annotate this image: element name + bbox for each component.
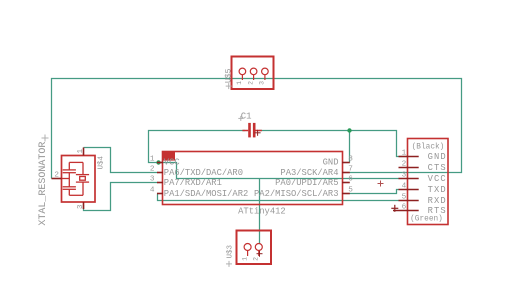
- svg-text:U$5: U$5: [225, 68, 234, 83]
- svg-text:7: 7: [348, 165, 353, 173]
- svg-text:PA7/RXD/AR1: PA7/RXD/AR1: [164, 178, 222, 188]
- svg-text:6: 6: [402, 203, 407, 211]
- capacitor C1: [242, 123, 262, 137]
- FTDI RTS pin origin cross: [391, 205, 398, 212]
- wire IC pin4 to connector RXD pin5: [158, 194, 400, 201]
- wire resonator pin3 to IC pin3: [84, 183, 158, 211]
- wire net GND branch to IC pin8: [349, 131, 351, 163]
- svg-text:1: 1: [236, 81, 243, 85]
- C1 text anchor cross: [238, 116, 243, 121]
- ATtiny412 pin names: [164, 158, 339, 199]
- resonator pin numbers: [54, 149, 84, 210]
- svg-text:3: 3: [402, 171, 407, 179]
- svg-text:C1: C1: [241, 111, 252, 121]
- svg-text:2: 2: [253, 257, 260, 261]
- svg-text:4: 4: [402, 182, 407, 190]
- wire IC pin5 to connector TXD pin4: [350, 190, 400, 194]
- svg-text:3: 3: [77, 204, 85, 209]
- svg-text:PA6/TXD/DAC/AR0: PA6/TXD/DAC/AR0: [164, 168, 243, 178]
- ATtiny412 left pin stubs: [157, 163, 163, 194]
- svg-text:CTS: CTS: [428, 163, 447, 173]
- svg-text:PA2/MISO/SCL/AR3: PA2/MISO/SCL/AR3: [254, 189, 338, 199]
- wire net GND: C1 right to connector GND pin1: [259, 131, 407, 157]
- svg-text:1: 1: [77, 149, 85, 154]
- U$5 pin numbers (rotated): [236, 81, 266, 85]
- svg-text:PA3/SCK/AR4: PA3/SCK/AR4: [280, 168, 338, 178]
- svg-text:4: 4: [150, 186, 155, 194]
- ic U1 ATtiny412 body: [163, 152, 343, 205]
- wire net VCC branch to U$3: [259, 179, 261, 244]
- svg-text:3: 3: [150, 175, 155, 183]
- svg-text:5: 5: [402, 193, 407, 201]
- svg-text:2: 2: [150, 165, 155, 173]
- svg-text:(Black): (Black): [412, 143, 445, 151]
- FTDI header pin stubs: [393, 157, 419, 211]
- svg-text:1: 1: [402, 149, 407, 157]
- junction at GND net below C1: [347, 128, 351, 132]
- svg-text:2: 2: [402, 160, 407, 168]
- resonator origin cross: [42, 135, 49, 142]
- U$5 pin circles: [239, 68, 268, 80]
- svg-text:3: 3: [259, 81, 266, 85]
- resonator U$4 body: [62, 156, 96, 203]
- connector U$3 body: [237, 231, 272, 265]
- U$5 origin cross: [226, 83, 232, 89]
- svg-text:GND: GND: [323, 158, 339, 168]
- U$3 pin circles: [244, 244, 262, 257]
- svg-text:XTAL_RESONATOR: XTAL_RESONATOR: [38, 142, 49, 226]
- wire net VCC: C1 left to IC pin1, then to connector VCC pin3: [149, 131, 400, 179]
- wire resonator pin1 to IC pin2: [84, 148, 158, 173]
- svg-text:GND: GND: [428, 152, 447, 162]
- svg-text:U$4: U$4: [98, 155, 106, 169]
- resonator pin stubs: [52, 148, 84, 210]
- U$3 pin numbers (rotated): [241, 257, 259, 261]
- U$3 pin2 origin cross: [257, 251, 263, 257]
- C1 origin cross: [255, 130, 261, 136]
- svg-text:VCC: VCC: [428, 174, 447, 184]
- svg-text:1: 1: [241, 257, 248, 261]
- FTDI part origin cross: [378, 181, 384, 187]
- svg-text:6: 6: [348, 175, 353, 183]
- connector U$2 FTDI header body: [408, 139, 449, 225]
- svg-text:PA1/SDA/MOSI/AR2: PA1/SDA/MOSI/AR2: [164, 189, 248, 199]
- junction at IC pin1 VCC: [156, 160, 160, 164]
- svg-text:ATtiny412: ATtiny412: [238, 206, 286, 216]
- svg-text:(Green): (Green): [410, 215, 443, 223]
- svg-text:TXD: TXD: [428, 185, 447, 195]
- svg-text:VCC: VCC: [164, 158, 180, 168]
- svg-text:8: 8: [348, 155, 353, 163]
- svg-text:U$3: U$3: [227, 244, 235, 258]
- U$3 origin cross: [226, 261, 232, 267]
- FTDI pin numbers: [402, 149, 407, 211]
- svg-text:PA0/UPDI/AR5: PA0/UPDI/AR5: [275, 178, 338, 188]
- resonator internals: [62, 162, 90, 195]
- svg-text:RXD: RXD: [428, 196, 447, 206]
- ATtiny412 right pin stubs: [342, 163, 350, 194]
- svg-text:2: 2: [54, 171, 59, 179]
- wire net N$1: IC pin7 to resonator pin2 via top loop: [52, 79, 462, 179]
- ATtiny412 pin numbers: [150, 155, 353, 194]
- connector U$5 body: [232, 57, 274, 90]
- capacitor C1 name label: [241, 111, 252, 121]
- svg-text:2: 2: [247, 81, 254, 85]
- svg-text:5: 5: [348, 186, 353, 194]
- svg-text:1: 1: [150, 155, 155, 163]
- FTDI pin names: [428, 152, 447, 216]
